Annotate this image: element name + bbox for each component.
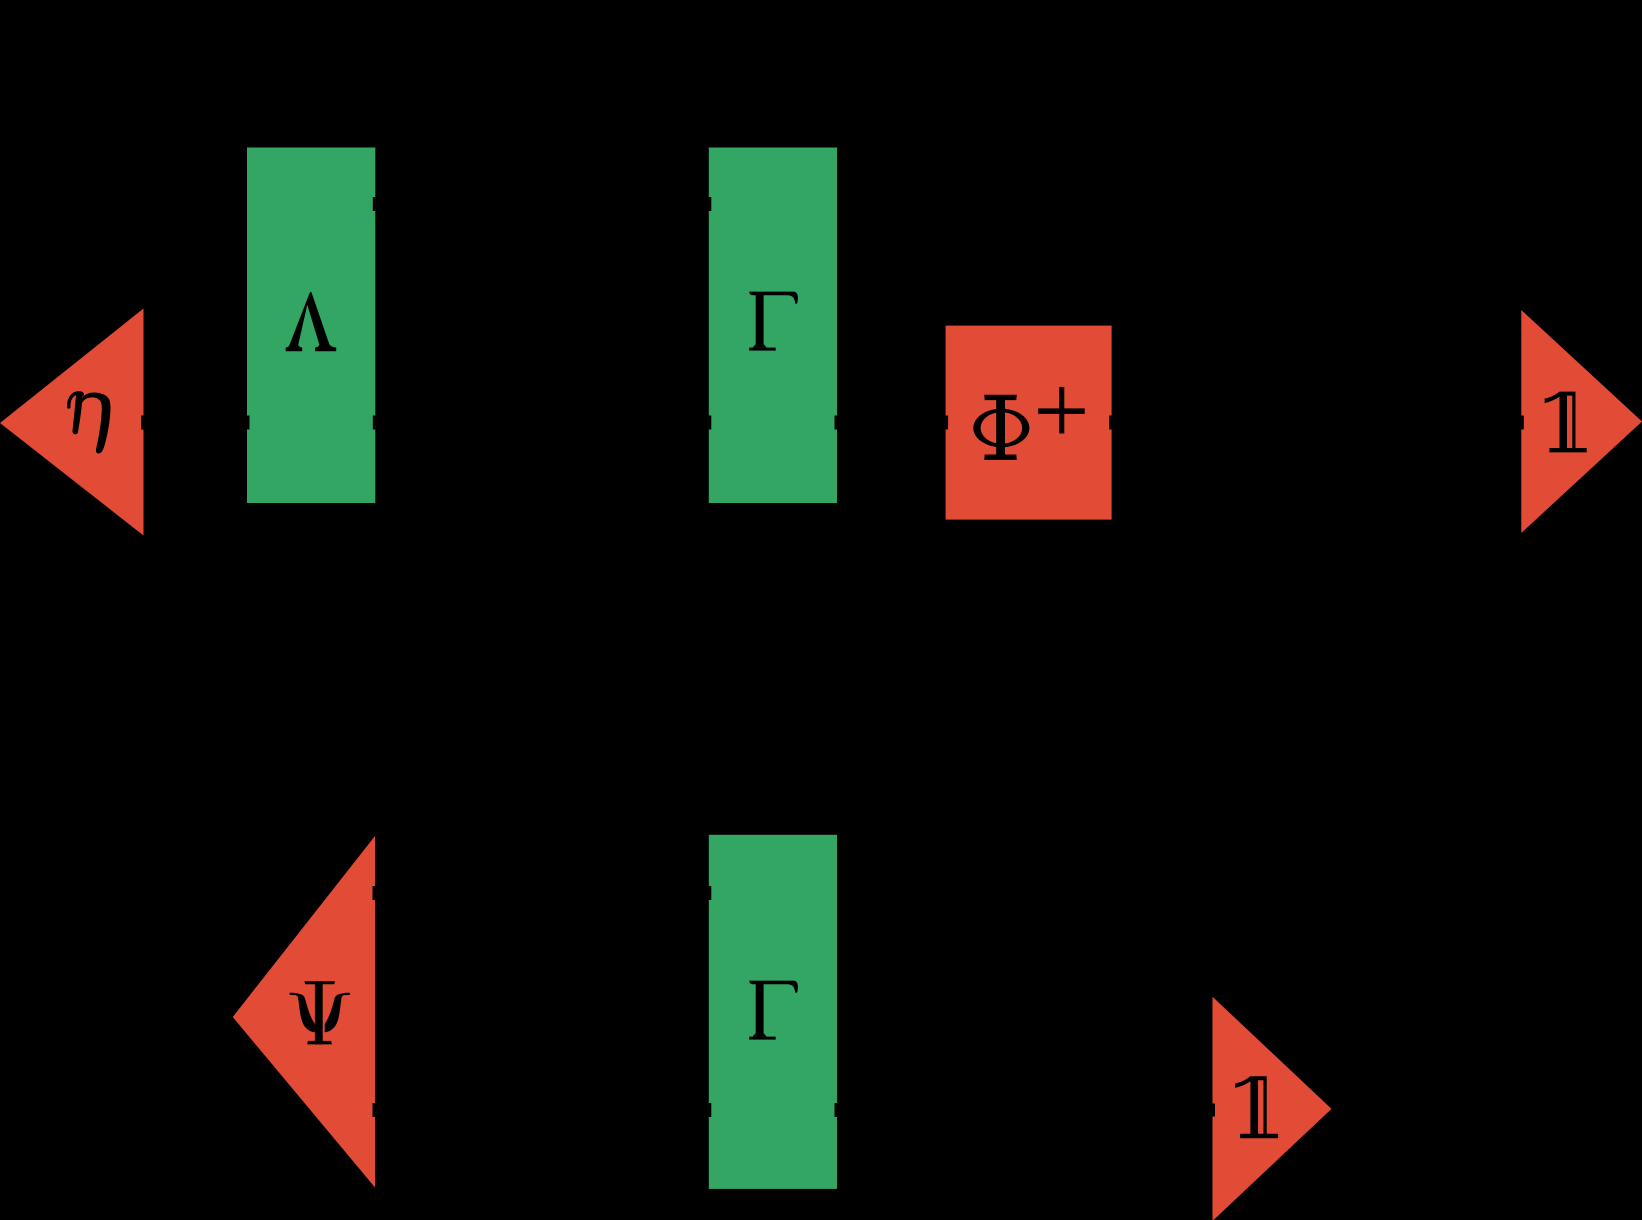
square Phi+ (red) — [946, 326, 1112, 520]
triangle identity top-right (points right) — [1521, 310, 1642, 533]
wire eta-Lambda — [141, 416, 250, 430]
label Gamma bottom — [749, 981, 798, 1040]
label double-struck one (top) — [1545, 392, 1587, 453]
label plus (superscript) — [1038, 387, 1085, 434]
label Gamma top — [749, 292, 798, 351]
rectangle Gamma bottom (green) — [709, 835, 837, 1189]
triangle identity bottom-right (points right) — [1213, 997, 1332, 1220]
label double-struck one (bottom) — [1235, 1076, 1278, 1138]
triangle Psi (bottom-left, points left) — [233, 836, 375, 1188]
label Lambda — [286, 292, 337, 352]
wire Psi-Gamma lower — [373, 1103, 712, 1117]
wire Gamma-identity bottom — [835, 1103, 1216, 1117]
rectangle Lambda (green) — [247, 148, 375, 504]
label eta — [69, 392, 111, 453]
wire Phi+-identity — [1109, 416, 1524, 430]
wire Lambda-Gamma upper — [373, 197, 712, 211]
wire Psi-Gamma upper — [373, 886, 712, 900]
label Phi — [973, 395, 1029, 460]
wire Lambda-Gamma lower — [373, 416, 712, 430]
rectangle Gamma top (green) — [709, 148, 837, 504]
wire Gamma-Phi+ — [835, 416, 949, 430]
triangle eta (top-left, points left) — [0, 309, 144, 536]
label Psi — [289, 981, 350, 1044]
